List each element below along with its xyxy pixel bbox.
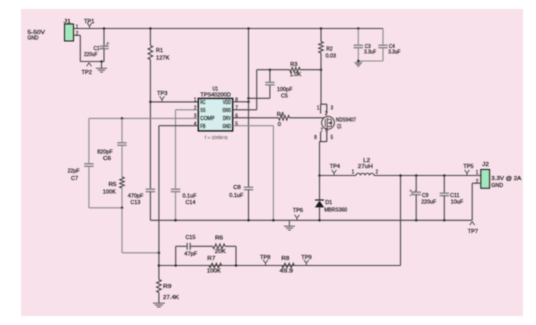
svg-text:RC: RC [200, 100, 205, 106]
wire comp joint to FB column [121, 208, 123, 253]
svg-text:GND: GND [223, 124, 231, 130]
svg-text:8: 8 [314, 135, 317, 141]
capacitor C9 220uF [415, 174, 418, 177]
svg-text:COMP: COMP [200, 116, 214, 122]
svg-text:220uF: 220uF [84, 52, 98, 58]
testpoint TP5 [465, 170, 470, 176]
svg-text:TP6: TP6 [293, 208, 304, 214]
svg-text:1: 1 [76, 24, 79, 30]
diode D1 MBRS360 [319, 176, 321, 201]
node VDD junction [247, 101, 250, 104]
capacitor C3 3.3uF [357, 27, 360, 30]
node VIN junction C1 [103, 27, 106, 30]
connector J2 [481, 170, 490, 189]
resistor R6 20K [213, 244, 225, 249]
capacitor C6 820pF [121, 118, 123, 142]
svg-text:SS: SS [200, 108, 205, 114]
svg-text:3.3uF: 3.3uF [388, 49, 401, 55]
wire ISNS pin7 [233, 109, 257, 111]
wire RC pin1 [150, 101, 198, 103]
capacitor C4 3.3uF [382, 29, 384, 46]
capacitor C11 10uF [443, 174, 446, 177]
wire COMP pin3 [89, 117, 198, 119]
wire DRV pin6 [233, 117, 279, 119]
svg-text:VDD: VDD [223, 100, 231, 106]
testpoint TP3 [160, 96, 165, 102]
svg-text:TP3: TP3 [157, 91, 168, 97]
wire ground rail [150, 219, 472, 221]
resistor R2 0.03 [320, 29, 322, 42]
svg-text:3: 3 [331, 106, 334, 112]
svg-text:U1: U1 [213, 86, 219, 92]
wire VDD pin8 [233, 101, 249, 103]
capacitor C5 100pF [265, 81, 274, 83]
wire J2 pin2 to rail [472, 182, 481, 184]
svg-text:TP8: TP8 [260, 255, 271, 261]
svg-text:2: 2 [476, 179, 479, 185]
wire Q1 to switch node [319, 142, 321, 176]
capacitor C13 470pF [149, 102, 151, 189]
svg-text:R1: R1 [156, 48, 163, 54]
testpoint TP7 [470, 222, 475, 226]
svg-text:D1: D1 [325, 200, 332, 206]
svg-text:TP4: TP4 [330, 164, 341, 170]
wire VDD column [248, 29, 250, 188]
svg-text:C9: C9 [422, 193, 429, 199]
svg-text:4: 4 [194, 121, 197, 127]
op-amp U1 TPS40200D [198, 98, 232, 130]
node C15 branch left [174, 264, 177, 267]
svg-text:3.3uF: 3.3uF [364, 49, 377, 55]
resistor R9 27.4K [157, 280, 162, 293]
resistor R3 1.0K [257, 69, 290, 71]
wire GND pin5 [233, 125, 274, 127]
svg-text:820pF: 820pF [97, 150, 113, 156]
node COMP junction C6 [121, 117, 124, 120]
svg-text:C14: C14 [186, 200, 197, 206]
svg-text:100K: 100K [103, 190, 116, 196]
svg-text:C15: C15 [186, 235, 197, 241]
svg-text:100pF: 100pF [277, 87, 293, 93]
svg-text:5: 5 [235, 121, 238, 127]
wire switch node line [320, 175, 357, 177]
svg-text:C8: C8 [233, 185, 241, 191]
svg-text:2: 2 [76, 31, 79, 37]
testpoint TP8 [263, 260, 268, 266]
testpoint TP1 [87, 23, 92, 29]
svg-text:C7: C7 [71, 176, 78, 182]
resistor R4 0 [279, 116, 290, 121]
svg-text:7: 7 [235, 105, 238, 111]
capacitor C7 22pF [88, 118, 90, 163]
svg-text:0.1uF: 0.1uF [183, 193, 197, 199]
svg-text:TPS40200D: TPS40200D [200, 92, 231, 98]
svg-text:FB: FB [200, 124, 205, 130]
svg-text:f = 200kHz: f = 200kHz [205, 135, 229, 141]
connector J1 [65, 24, 74, 41]
svg-text:1: 1 [194, 97, 197, 103]
wire C15 R6 branch [175, 246, 177, 265]
node RC junction [149, 101, 152, 104]
node R2 bottom junction [320, 68, 323, 71]
ground symbol on rail [288, 220, 290, 226]
resistor R1 127K [149, 29, 151, 46]
svg-text:R5: R5 [109, 182, 118, 188]
svg-text:R3: R3 [290, 62, 298, 68]
svg-text:NDS9407: NDS9407 [336, 117, 356, 123]
svg-text:10uF: 10uF [451, 199, 464, 205]
svg-text:2: 2 [325, 111, 328, 117]
capacitor C1 220uF [103, 29, 105, 47]
svg-text:R6: R6 [215, 236, 224, 242]
inductor L2 27uH [356, 173, 374, 175]
node VIN junction R2 [320, 27, 323, 30]
capacitor C15 47pF [186, 243, 188, 250]
svg-text:R2: R2 [326, 46, 333, 52]
wire VIN top rail [74, 28, 384, 30]
svg-text:7: 7 [320, 128, 323, 134]
svg-text:1: 1 [317, 106, 320, 112]
svg-text:R7: R7 [207, 256, 215, 262]
svg-text:GND: GND [28, 35, 39, 41]
svg-text:6: 6 [235, 113, 238, 119]
node FB feedback junction [158, 264, 161, 267]
svg-text:TP1: TP1 [84, 19, 94, 25]
resistor R8 49.9 [282, 263, 294, 268]
node comp joint [121, 207, 124, 210]
svg-text:0.1uF: 0.1uF [229, 193, 243, 199]
node VIN junction R1 [149, 27, 152, 30]
testpoint TP4 [332, 170, 337, 176]
svg-text:TP2: TP2 [82, 70, 92, 76]
svg-text:Q1: Q1 [337, 124, 342, 130]
svg-text:49.9: 49.9 [280, 268, 294, 274]
node C15 branch right [235, 264, 238, 267]
node switch junction [318, 174, 321, 177]
capacitor C14 0.1uF [171, 188, 180, 190]
svg-text:J1: J1 [64, 19, 72, 25]
svg-text:DRV: DRV [223, 116, 231, 122]
svg-text:MBRS360: MBRS360 [324, 208, 348, 214]
node FB column joint [158, 252, 161, 255]
svg-text:GND: GND [491, 183, 503, 189]
svg-text:100K: 100K [207, 268, 221, 274]
testpoint TP9 [304, 260, 309, 266]
svg-text:47pF: 47pF [184, 252, 197, 258]
svg-text:1: 1 [476, 170, 479, 176]
svg-text:TP7: TP7 [468, 229, 478, 235]
svg-text:20K: 20K [215, 249, 226, 255]
svg-text:127K: 127K [156, 55, 170, 61]
svg-text:27uH: 27uH [358, 164, 373, 170]
svg-text:5: 5 [331, 135, 334, 141]
wire J1 pin2 to C1 bottom [74, 34, 81, 36]
svg-text:27.4K: 27.4K [163, 295, 179, 301]
svg-text:C6: C6 [103, 156, 112, 162]
wire C5 branch [249, 97, 270, 99]
testpoint TP2 [87, 63, 92, 67]
svg-text:220uF: 220uF [421, 199, 436, 205]
svg-text:R8: R8 [281, 256, 290, 262]
svg-text:R4: R4 [277, 112, 285, 118]
svg-text:C11: C11 [450, 193, 460, 199]
svg-text:2: 2 [376, 170, 378, 176]
svg-text:0.03: 0.03 [326, 53, 337, 59]
node R3 junction C5 [269, 68, 272, 71]
svg-text:3.3V @ 2A: 3.3V @ 2A [491, 176, 521, 182]
node C1 bottom junction [100, 60, 103, 63]
svg-text:1.0K: 1.0K [290, 72, 302, 78]
svg-text:22pF: 22pF [68, 169, 80, 175]
resistor R7 100K [209, 263, 222, 268]
svg-text:470pF: 470pF [128, 193, 144, 199]
svg-text:C5: C5 [281, 94, 288, 100]
ground under C3 C4 [357, 60, 360, 63]
transistor Q1 NDS9407 [321, 103, 327, 105]
ground under R9 [153, 302, 165, 304]
svg-text:TP9: TP9 [301, 255, 311, 261]
svg-text:ISNS: ISNS [223, 108, 232, 114]
resistor R5 100K [120, 177, 125, 188]
svg-text:R9: R9 [163, 284, 172, 290]
ground under C1 [101, 62, 103, 69]
rail junction dots [174, 219, 177, 222]
svg-text:TP5: TP5 [463, 164, 474, 170]
svg-text:J2: J2 [482, 162, 489, 168]
svg-text:C13: C13 [131, 200, 141, 206]
testpoint TP6 [295, 215, 300, 221]
wire FB pin4 [159, 125, 198, 127]
wire feedback line [159, 265, 401, 267]
wire SS pin2 [176, 109, 199, 111]
wire comp network bottom joint [89, 207, 122, 209]
svg-text:1: 1 [352, 170, 354, 176]
svg-text:2: 2 [194, 105, 197, 111]
capacitor C8 0.1uF [244, 186, 253, 188]
svg-text:8: 8 [235, 97, 238, 103]
node output junction feedback [399, 174, 402, 177]
svg-text:6: 6 [325, 128, 328, 134]
